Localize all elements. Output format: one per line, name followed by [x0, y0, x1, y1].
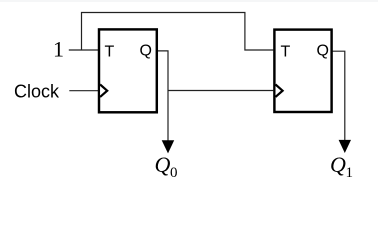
svg-text:Q: Q [330, 152, 346, 177]
svg-text:T: T [281, 43, 291, 60]
flip-flop U1 body [99, 29, 157, 112]
svg-text:Q: Q [155, 152, 171, 177]
arrowhead on Q0 output [162, 140, 175, 153]
svg-text:T: T [105, 43, 115, 60]
svg-text:Q: Q [317, 43, 329, 60]
wire: top feedback net from node A up and across to T of U2 [82, 13, 274, 51]
svg-text:0: 0 [170, 165, 178, 181]
U1 clock chevron [100, 85, 107, 97]
svg-text:1: 1 [346, 165, 354, 181]
arrowhead on Q1 output [339, 140, 351, 153]
svg-text:1: 1 [53, 37, 64, 62]
svg-text:Clock: Clock [14, 81, 60, 101]
wire: Clock lead into U1 clock pin [69, 90, 98, 92]
wire: constant 1 to T input of U1 [69, 49, 98, 51]
wire: branch from Q0 node to clock pin of U2 [168, 90, 273, 92]
wire: Q of U2 out to vertical drop [332, 51, 345, 140]
svg-text:Q: Q [140, 43, 152, 60]
U2 clock chevron [276, 85, 283, 97]
flip-flop U2 body [274, 30, 331, 112]
wire: Q of U1 out to vertical drop [158, 51, 169, 141]
